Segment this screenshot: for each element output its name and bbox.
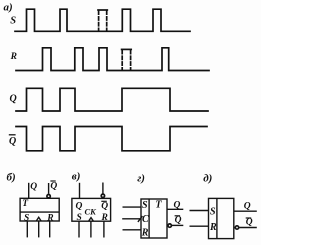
- wire R dashed pulse left edge: [121, 50, 123, 69]
- flip-flop U2 clock chevron: [89, 218, 94, 222]
- svg-text:R: R: [10, 52, 17, 62]
- svg-text:Q: Q: [50, 182, 57, 192]
- wire U4 input R: [190, 225, 209, 227]
- wire U4 output Q: [234, 210, 257, 212]
- inversion bubble U2: [101, 194, 104, 197]
- flip-flop U1 clock chevron: [36, 217, 41, 221]
- wire U3 input S: [123, 206, 142, 208]
- wire U1 output Q: [28, 183, 30, 199]
- wire U1 input C: [38, 221, 40, 237]
- svg-text:г): г): [137, 173, 145, 185]
- flip-flop U4 box: [209, 198, 234, 238]
- svg-text:Q: Q: [10, 94, 17, 105]
- svg-text:R: R: [209, 222, 217, 233]
- wire U2 input C: [90, 221, 92, 237]
- flip-flop U4 (symbol d): [190, 198, 257, 238]
- svg-text:R: R: [141, 227, 149, 238]
- inversion bubble U3: [168, 224, 171, 227]
- wire U2 input R: [103, 221, 105, 237]
- flip-flop U4 divider: [216, 198, 218, 238]
- flip-flop U2 box: [72, 198, 111, 221]
- flip-flop U1 box: [20, 198, 59, 221]
- svg-text:S: S: [24, 214, 29, 224]
- flip-flop U1 (symbol b): [20, 183, 59, 238]
- wire U3 output Q-bar: [172, 224, 184, 226]
- flip-flop U3 box: [141, 199, 167, 238]
- svg-text:R: R: [101, 213, 108, 223]
- svg-text:в): в): [72, 171, 81, 183]
- svg-text:Q: Q: [76, 202, 83, 212]
- svg-text:CK: CK: [85, 207, 98, 217]
- svg-text:S: S: [142, 200, 148, 211]
- flip-flop U3 divider: [148, 199, 150, 238]
- wire U3 output Q: [167, 208, 183, 210]
- wire S dashed pulse top: [98, 9, 107, 11]
- svg-text:T: T: [155, 199, 162, 210]
- svg-text:д): д): [203, 173, 212, 185]
- svg-text:S: S: [10, 15, 16, 26]
- dynamic input slash U3: [138, 216, 143, 222]
- svg-text:C: C: [142, 214, 149, 225]
- svg-text:Q: Q: [246, 218, 253, 228]
- svg-text:б): б): [7, 172, 16, 184]
- flip-flop U3 Q-bar overline: [175, 215, 181, 217]
- svg-text:Q: Q: [9, 136, 16, 147]
- flip-flop U2 (symbol v): [72, 183, 111, 238]
- svg-text:Q: Q: [175, 215, 182, 225]
- svg-text:а): а): [4, 2, 13, 14]
- flip-flop U1 divider: [20, 211, 59, 213]
- wire U1 output Q-bar: [48, 183, 50, 194]
- wire R dashed pulse top: [122, 48, 132, 50]
- inversion bubble U4: [235, 226, 238, 229]
- wire Q waveform: [16, 88, 208, 111]
- svg-text:Q: Q: [174, 200, 181, 210]
- wire U4 output Q-bar: [239, 227, 257, 229]
- wire Q-bar waveform: [16, 127, 207, 151]
- svg-text:Q: Q: [101, 202, 108, 212]
- flip-flop U1 Q-bar overline: [50, 180, 55, 182]
- svg-text:Q: Q: [244, 202, 251, 212]
- wire S waveform: [15, 9, 190, 31]
- flip-flop U2 pin Q-bar overline: [101, 200, 107, 202]
- wire U4 input S: [190, 210, 209, 212]
- inversion bubble U1: [47, 195, 50, 198]
- wire S dashed pulse right edge: [106, 11, 108, 31]
- wire U2 input S: [78, 221, 80, 237]
- wire S dashed pulse left edge: [98, 11, 100, 31]
- wire U2 output Q: [79, 183, 81, 199]
- wire U2 output Q-bar: [102, 183, 104, 194]
- svg-text:Q: Q: [30, 182, 37, 192]
- flip-flop U3 (symbol g): [122, 199, 183, 238]
- wire R waveform: [16, 48, 209, 71]
- wire U3 input R: [123, 229, 142, 231]
- svg-text:S: S: [210, 207, 216, 218]
- svg-text:S: S: [77, 213, 82, 223]
- flip-flop U4 Q-bar overline: [246, 217, 252, 219]
- wire U1 input S: [26, 221, 28, 237]
- wire U3 input C: [122, 218, 141, 220]
- node Q-bar overline: [9, 134, 16, 136]
- wire R dashed pulse right edge: [130, 50, 132, 69]
- wire U1 input R: [49, 221, 51, 237]
- svg-text:R: R: [46, 214, 53, 224]
